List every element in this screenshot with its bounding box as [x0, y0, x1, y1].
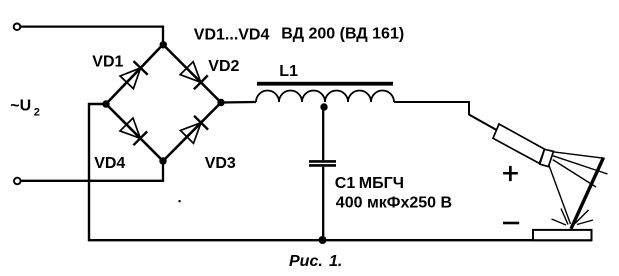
- node bottom vertex: [159, 157, 166, 164]
- svg-text:Рис.: Рис.: [289, 253, 323, 270]
- svg-text:~U: ~U: [10, 97, 31, 114]
- diode VD3: [180, 116, 208, 144]
- electrode clamp line 1: [553, 152, 605, 159]
- diode VD1: [120, 61, 148, 89]
- diode VD3 arm wire: [163, 103, 221, 162]
- svg-text:ВД 200 (ВД 161): ВД 200 (ВД 161): [281, 26, 404, 43]
- electrode clamp line 4: [549, 166, 571, 225]
- node right vertex: [217, 99, 224, 106]
- svg-text:МБГЧ: МБГЧ: [359, 175, 404, 192]
- inductor L1 core bar: [257, 82, 393, 86]
- diode VD2: [180, 62, 208, 90]
- node L1 tap: [320, 103, 327, 110]
- node C1 rail junction: [319, 236, 327, 244]
- svg-text:400 мкФх250 В: 400 мкФх250 В: [336, 194, 452, 211]
- wire bridge output to L1: [221, 101, 256, 104]
- spark right low: [577, 220, 593, 225]
- spark left high: [561, 209, 568, 225]
- svg-text:L1: L1: [279, 63, 298, 80]
- inductor L1 winding: [256, 91, 394, 103]
- svg-text:VD4: VD4: [94, 155, 125, 172]
- stray ink speck: [178, 200, 180, 202]
- electrode clamp line 3: [553, 160, 596, 187]
- wire top input: [21, 27, 163, 45]
- capacitor C1: [309, 161, 336, 165]
- wire negative output and bottom rail: [89, 104, 592, 240]
- workpiece plate: [533, 230, 592, 240]
- diode VD4 arm wire: [106, 104, 163, 161]
- node left vertex: [102, 100, 109, 107]
- spark right high: [575, 210, 589, 224]
- label minus polarity: [503, 222, 519, 225]
- svg-text:VD3: VD3: [205, 155, 236, 172]
- node top vertex: [160, 41, 167, 48]
- wire C1 to bottom rail: [322, 167, 324, 241]
- welding electrode: [571, 158, 604, 229]
- svg-text:C1: C1: [335, 175, 356, 192]
- diode VD2 arm wire: [163, 45, 221, 103]
- wire L1 tap to C1: [322, 104, 324, 160]
- svg-text:1.: 1.: [329, 253, 342, 270]
- diode VD1 arm wire: [106, 45, 163, 105]
- label plus polarity: [503, 166, 518, 181]
- diode VD4: [120, 118, 147, 145]
- wire bottom input: [21, 161, 163, 181]
- terminal upper input: [14, 24, 21, 31]
- wire L1 to holder lead: [394, 102, 497, 130]
- svg-text:VD2: VD2: [208, 58, 239, 75]
- svg-text:VD1: VD1: [92, 54, 123, 71]
- electrode holder body: [493, 124, 545, 163]
- terminal lower input: [14, 178, 21, 185]
- electrode clamp line 2: [553, 156, 608, 174]
- electrode holder ferrule: [540, 149, 554, 166]
- svg-text:2: 2: [34, 106, 40, 118]
- svg-text:VD1...VD4: VD1...VD4: [194, 27, 270, 44]
- spark left low: [552, 219, 567, 225]
